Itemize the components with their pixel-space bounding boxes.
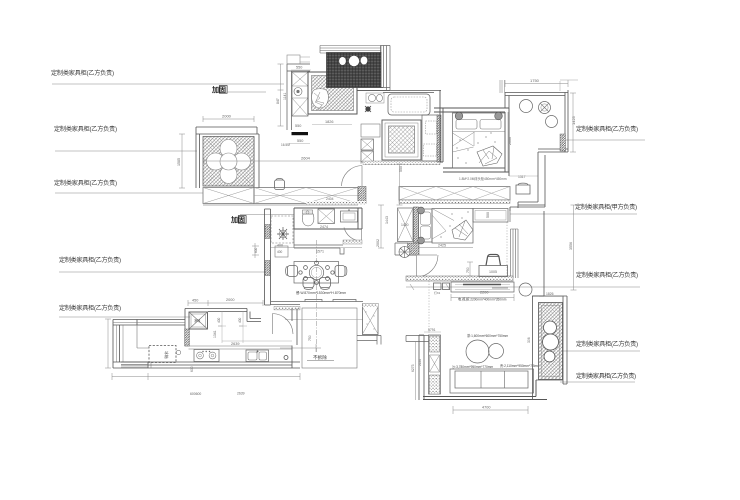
- label right R2 text: [575, 203, 637, 211]
- label right R5 text: [576, 372, 636, 380]
- stool in corridor: [275, 179, 285, 190]
- balcony right herringbone strip: [539, 303, 563, 380]
- threshold stone black bar: [292, 132, 309, 135]
- wall hatch pillar below hood: [185, 329, 190, 346]
- toilet in bathroom A: [312, 89, 329, 110]
- svg-text:400: 400: [277, 244, 283, 248]
- laundry room top right walls: [505, 90, 568, 152]
- wall entry top (corridor to bathroom): [287, 64, 310, 130]
- svg-text:16.5M: 16.5M: [281, 143, 290, 147]
- svg-text:定制类家具柜(乙方负责): 定制类家具柜(乙方负责): [576, 271, 638, 279]
- bedroom2 bed dots: [440, 211, 468, 237]
- master bed outline: [453, 113, 506, 168]
- svg-text:400: 400: [217, 317, 221, 323]
- svg-text:餐:W.870mm*1530mm*H.870mm: 餐:W.870mm*1530mm*H.870mm: [296, 290, 346, 295]
- plant bedroom2: [399, 246, 410, 258]
- bedroom2 desk right: [473, 209, 508, 223]
- svg-text:1005: 1005: [489, 270, 497, 274]
- svg-text:550: 550: [296, 66, 302, 70]
- hatched wall strip x437: [437, 115, 441, 162]
- bedroom2 bed lamps: [418, 207, 425, 244]
- walls below bathroom B: [294, 229, 344, 254]
- svg-text:定制类家具柜(乙方负责): 定制类家具柜(乙方负责): [54, 179, 117, 187]
- TV niche arm: [406, 336, 429, 342]
- bathroom B door arc: [344, 228, 362, 242]
- dim vertical x508 bedroom: [508, 112, 512, 172]
- living desk: [479, 266, 508, 277]
- svg-text:2000: 2000: [222, 114, 232, 119]
- svg-text:加固: 加固: [230, 215, 245, 224]
- basin counter white cutouts in dark floor: [339, 56, 367, 66]
- coffee table label: [467, 333, 508, 338]
- label left L4 text: [59, 256, 121, 264]
- svg-text:550: 550: [297, 139, 303, 143]
- stove: [194, 350, 219, 362]
- dim 306 living right: [527, 337, 531, 343]
- corridor right wardrobe row top: [399, 187, 510, 204]
- dining plates: [299, 261, 334, 284]
- svg-text:1.8M*2.0M床头柜450mm*450mm: 1.8M*2.0M床头柜450mm*450mm: [459, 176, 507, 181]
- threshold hatch below bathroom B: [343, 240, 362, 244]
- floor drain circle: [294, 88, 302, 96]
- corridor wardrobe row center: [203, 188, 358, 206]
- dining dim 400 1571: [271, 244, 362, 254]
- kitchen counter inner lines: [185, 346, 292, 349]
- small table right of wardrobe: [516, 183, 530, 194]
- master bed blanket fold: [453, 132, 475, 152]
- dim 2200 under cabinet: [451, 291, 514, 302]
- svg-text:1400: 1400: [401, 223, 409, 227]
- svg-text:2639: 2639: [237, 392, 245, 396]
- svg-text:沙:3,780mm*950mm*770mm: 沙:3,780mm*950mm*770mm: [452, 365, 493, 369]
- bathroom A herringbone floor: [312, 76, 354, 111]
- svg-text:2002: 2002: [376, 239, 380, 247]
- wardrobe row left dotted band: [306, 201, 366, 205]
- svg-text:1443: 1443: [385, 216, 389, 224]
- svg-text:1141: 1141: [283, 93, 287, 100]
- svg-text:1571: 1571: [316, 250, 324, 254]
- svg-text:定制类家具柜(乙方负责): 定制类家具柜(乙方负责): [576, 340, 638, 348]
- living cabinet row: [451, 282, 514, 292]
- svg-text:定制类家具柜(乙方负责): 定制类家具柜(乙方负责): [59, 304, 121, 312]
- laundry window to bedroom: [500, 80, 505, 93]
- coffee table big circle: [466, 340, 504, 363]
- label right R3 leader line: [406, 284, 640, 290]
- master bed dots: [456, 132, 495, 163]
- bathroom B toilet: [302, 210, 313, 226]
- dim 5791 at TV: [424, 328, 441, 332]
- sofa labels: [452, 363, 540, 369]
- svg-text:500: 500: [486, 212, 490, 218]
- svg-text:6273: 6273: [411, 364, 415, 372]
- label right R4 text: [576, 340, 638, 348]
- svg-text:1750: 1750: [530, 78, 540, 83]
- svg-text:1425: 1425: [571, 115, 576, 125]
- dining centerline: [316, 240, 318, 352]
- svg-text:3556: 3556: [569, 242, 573, 250]
- balcony plant circles: [543, 321, 559, 362]
- hall dotted sill band: [274, 307, 300, 310]
- label left L3 leader line: [55, 192, 203, 194]
- wall from laundry down to living (right side): [510, 152, 545, 296]
- bedroom2 door arc: [417, 255, 439, 277]
- dim 2604 corridor: [204, 156, 361, 165]
- kitchen dims top: [188, 298, 263, 306]
- flower room herringbone floor: [203, 137, 254, 187]
- kitchen top wall/counter: [208, 309, 261, 322]
- texts below kitchen: [190, 392, 245, 397]
- sofa: [450, 369, 534, 393]
- svg-text:400: 400: [277, 250, 283, 254]
- plant stand dashed rect: [271, 216, 293, 243]
- svg-text:定制类家具柜(乙方负责): 定制类家具柜(乙方负责): [54, 125, 117, 133]
- living threshold hatched band: [406, 276, 513, 281]
- vanity cabinet left of shower: [361, 124, 380, 137]
- svg-text:定制类家具柜(乙方负责): 定制类家具柜(乙方负责): [576, 125, 638, 133]
- kitchen balcony step: [137, 325, 149, 348]
- svg-text:2604: 2604: [301, 156, 311, 161]
- bedroom2 crumpled blanket: [452, 220, 473, 240]
- dotted ceiling line bedroom2/living: [506, 222, 508, 278]
- label right R1 leader line: [566, 139, 645, 141]
- bedroom2 bed body: [432, 209, 473, 244]
- washbasin beside bathtub: [366, 93, 384, 103]
- svg-text:600600: 600600: [190, 392, 201, 396]
- note 加固 J2: [230, 215, 294, 225]
- svg-text:847: 847: [276, 98, 280, 104]
- svg-text:2000: 2000: [226, 298, 234, 302]
- hall top wall with sills: [271, 300, 363, 305]
- svg-text:定制类家具柜(乙方负责): 定制类家具柜(乙方负责): [59, 256, 121, 264]
- dining left wall: [265, 209, 271, 305]
- bedroom2 bed headboard: [419, 209, 433, 242]
- sideboard below plant: [275, 246, 288, 257]
- master bed lamps: [455, 112, 502, 120]
- laundry balcony right wall: [357, 46, 390, 91]
- svg-text:2220: 2220: [418, 359, 422, 366]
- faucet symbol: [365, 106, 371, 112]
- laundry balcony top window lines: [320, 46, 381, 54]
- dim lines right of bathroom B: [376, 164, 403, 248]
- svg-text:不拆除: 不拆除: [313, 354, 327, 361]
- right outer dim column: [569, 205, 577, 290]
- dim extension top right corner: [560, 80, 578, 91]
- corridor door arc: [342, 166, 363, 187]
- wardrobe with X at bathroom left: [292, 72, 308, 116]
- shoe cabinet entry: [363, 304, 379, 335]
- svg-text:4700: 4700: [482, 406, 490, 410]
- fridge dashed: [149, 346, 181, 363]
- kitchen outer dim line bottom: [112, 373, 300, 380]
- bathroom B shower X box: [318, 209, 335, 224]
- laundry basin circle: [520, 100, 533, 113]
- dim vertical right of laundry: [570, 93, 576, 152]
- dim 750 at desk: [466, 262, 473, 276]
- hall dim + text 不拆除: [280, 335, 334, 361]
- label left L1 leader line: [52, 83, 284, 85]
- dim 550 top entry: [291, 66, 311, 71]
- bedroom2 hatched wall strip: [414, 207, 419, 243]
- dim 4700 bottom: [453, 406, 528, 415]
- living right wall to balcony: [533, 296, 545, 399]
- master bedroom walls: [434, 90, 509, 176]
- kitchen door arc: [273, 314, 294, 335]
- bathroom B walls: [294, 208, 362, 229]
- svg-text:1317: 1317: [518, 175, 526, 179]
- svg-text:2404: 2404: [326, 197, 334, 201]
- dining chairs top bottom: [303, 278, 331, 290]
- dim 1750 top: [505, 78, 568, 87]
- svg-text:定制类家具柜(乙方负责): 定制类家具柜(乙方负责): [51, 69, 114, 77]
- svg-text:贵:2,110mm*950mm*7.5mm: 贵:2,110mm*950mm*7.5mm: [500, 363, 540, 368]
- plant on stand: [277, 227, 289, 240]
- hall inner line: [285, 319, 363, 321]
- dim 1826: [312, 120, 352, 125]
- balcony outer wall right: [532, 296, 567, 384]
- bedroom2 left wardrobe X: [398, 208, 414, 242]
- dashed living boundary x429: [428, 281, 430, 334]
- label left L2 leader line: [55, 150, 197, 152]
- dim 2474 in bathroom B: [320, 225, 328, 229]
- dim 2000 above flower room: [203, 114, 254, 123]
- dining chairs left right: [286, 266, 347, 277]
- two X boxes left of shower: [361, 139, 374, 162]
- entry walls below shoe cabinet: [357, 336, 381, 345]
- label left L1 text 定制类家具柜(乙方负责): [51, 69, 114, 77]
- svg-text:净味: 净味: [194, 318, 201, 323]
- svg-text:750: 750: [466, 267, 470, 273]
- kitchen bottom wall: [113, 309, 300, 369]
- label right R1 text: [576, 125, 638, 133]
- dim marks left of table: [252, 243, 259, 258]
- label right R5 leader line: [560, 381, 635, 383]
- bathtub: [388, 94, 430, 115]
- label right R3 text: [576, 271, 638, 279]
- balcony dim 1826: [539, 292, 563, 297]
- wardrobe strip right of shower: [422, 115, 438, 161]
- svg-text:定制类家具柜(乙方负责): 定制类家具柜(乙方负责): [576, 372, 636, 380]
- svg-text:550: 550: [399, 166, 403, 172]
- fixture small top-left of bathroom: [287, 55, 310, 64]
- svg-text:1826: 1826: [325, 120, 333, 124]
- svg-text:灯X2: 灯X2: [434, 291, 441, 295]
- text under cabinet: [458, 297, 507, 302]
- dim 2404 on wardrobe band: [326, 197, 334, 201]
- living bottom wall: [423, 380, 547, 400]
- shower room bottom hatched sill: [363, 161, 440, 165]
- living left wall: [419, 335, 424, 400]
- wall stub x510: [509, 207, 511, 222]
- living two small squares: [434, 283, 450, 295]
- label right R4 leader line: [544, 350, 640, 352]
- living circle lamp: [519, 283, 532, 296]
- bedroom2 dim 2425: [418, 244, 473, 248]
- svg-text:2000: 2000: [508, 137, 512, 145]
- bathroom B washbasin: [341, 209, 358, 222]
- corridor wardrobe hatched end: [358, 187, 366, 204]
- kitchen outer walls: [113, 309, 300, 369]
- laundry circle 3: [546, 116, 558, 128]
- dim text under master bed: [459, 176, 507, 181]
- shower room mosaic floor: [389, 126, 415, 153]
- svg-text:600: 600: [190, 366, 194, 372]
- svg-text:2474: 2474: [320, 225, 328, 229]
- svg-text:1585: 1585: [177, 158, 181, 166]
- label left L2 text: [54, 125, 117, 133]
- flower carpet petals: [207, 140, 251, 184]
- kitchen sink: [246, 350, 269, 362]
- flower room walls: [196, 127, 259, 188]
- master bed crumpled blanket: [477, 146, 502, 166]
- svg-text:2425: 2425: [438, 244, 446, 248]
- corridor wardrobe row left (below flower room): [203, 188, 254, 204]
- dim 2220 vertical left: [418, 359, 422, 366]
- bathtub room top wall: [357, 88, 441, 93]
- label left L4 leader line: [59, 271, 266, 273]
- svg-text:306: 306: [527, 337, 531, 343]
- svg-text:茶:1,600mm*600mm*750mm: 茶:1,600mm*600mm*750mm: [467, 333, 508, 338]
- kitchen dim verticals small: [190, 311, 247, 372]
- label left L5 leader line: [59, 316, 190, 318]
- laundry balcony dark hatched floor: [327, 53, 382, 88]
- window bay right of bedroom2: [511, 229, 519, 278]
- washing machine circle with cross: [539, 102, 551, 114]
- dim vertical x280 entry: [276, 64, 287, 126]
- svg-text:2639: 2639: [231, 342, 239, 346]
- living desk chair: [486, 255, 501, 266]
- shower room walls: [382, 120, 421, 160]
- svg-text:冰箱: 冰箱: [164, 351, 169, 359]
- svg-text:定制类家具柜(甲方负责): 定制类家具柜(甲方负责): [575, 203, 637, 211]
- note 加固 J1: [211, 85, 266, 94]
- dim 6273 vertical: [411, 341, 416, 400]
- kitchen dims mid: [213, 330, 292, 346]
- bathroom A outer walls: [308, 72, 357, 114]
- label left L5 text: [59, 304, 121, 312]
- dim vertical x182 left of flower room: [177, 134, 185, 188]
- svg-text:400: 400: [238, 317, 242, 323]
- svg-text:1826: 1826: [546, 292, 554, 296]
- bedroom2 bottom wall and plant: [395, 243, 419, 255]
- label right R2 leader line: [510, 213, 637, 215]
- TV cabinet dotted strip: [429, 335, 441, 394]
- dining table: [294, 262, 339, 284]
- svg-text:1341: 1341: [213, 330, 217, 338]
- dining size text: [296, 290, 346, 295]
- svg-text:600: 600: [254, 247, 258, 253]
- master bed pillows: [453, 120, 505, 132]
- dim 550 small above corridor: [281, 124, 310, 147]
- svg-text:加固: 加固: [211, 85, 226, 94]
- dim text 1317 below laundry: [509, 175, 538, 179]
- hall rug rect: [302, 308, 357, 368]
- label left L3 text: [54, 179, 117, 187]
- dining wall hatch pieces: [265, 225, 270, 276]
- kitchen balcony window lines: [113, 323, 185, 369]
- svg-text:2200: 2200: [480, 291, 488, 295]
- kitchen left dim column: [105, 319, 111, 368]
- svg-text:450: 450: [192, 299, 198, 303]
- svg-text:750: 750: [308, 335, 312, 341]
- range hood X: [189, 312, 208, 329]
- laundry right wall hatch: [560, 134, 566, 151]
- svg-text:550: 550: [295, 124, 301, 128]
- svg-text:电.视.柜:2200mm*400mm*350mm: 电.视.柜:2200mm*400mm*350mm: [458, 297, 507, 302]
